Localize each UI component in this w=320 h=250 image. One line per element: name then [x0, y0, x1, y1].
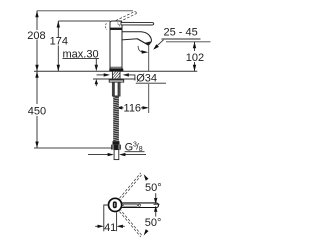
svg-text:50°: 50° [145, 182, 162, 194]
max.30 leader down [95, 59, 97, 66]
top view phantom lever +50 [120, 173, 143, 200]
connector nut [111, 145, 121, 150]
svg-text:41: 41 [104, 222, 116, 234]
base flange [109, 69, 123, 72]
ref line hose end (450 bottom) [34, 147, 114, 149]
dim O34 right arrow + elbow leader [123, 73, 135, 80]
spout outlet centerline [148, 46, 150, 113]
svg-text:116: 116 [124, 103, 142, 115]
spout outlet slant line [137, 39, 148, 45]
angle arc upper [155, 193, 157, 198]
dim 174 line [57, 21, 59, 71]
ref line lever top (174 level) [58, 20, 110, 22]
label max.30 underline [63, 58, 100, 60]
dim 174 arrows [57, 21, 60, 71]
ref line 102 top [166, 41, 211, 43]
connector tail G3/8 [114, 150, 119, 160]
dim 41 leader L [104, 205, 109, 231]
stream angle arc arrow [138, 46, 142, 52]
lever lift dashed arc [105, 23, 106, 29]
ref line top (208 level) [37, 10, 133, 12]
top view lever [121, 203, 159, 208]
svg-text:208: 208 [27, 30, 45, 42]
svg-text:25 - 45: 25 - 45 [164, 26, 198, 38]
dim O34 left arrow [97, 73, 111, 76]
lever bar [121, 22, 154, 25]
dim 450 arrows [35, 71, 38, 148]
spout [122, 32, 151, 45]
lever tip reference tick [154, 203, 160, 205]
dim 208 line [36, 11, 38, 71]
dim 102 line [194, 42, 196, 71]
svg-text:50°: 50° [145, 217, 162, 229]
svg-text:174: 174 [50, 35, 68, 47]
dim 208 arrows [35, 11, 38, 71]
cartridge dark ring [110, 28, 123, 30]
top view phantom lever -50 [120, 210, 143, 237]
top view body circle [109, 198, 122, 211]
body joint line [110, 66, 122, 68]
svg-text:102: 102 [186, 52, 204, 64]
dim 116 [118, 107, 147, 109]
spout outlet tip solid [145, 41, 151, 45]
faucet body [110, 30, 122, 69]
deck top line [34, 70, 197, 72]
angle arc lower [155, 212, 157, 217]
shank through deck [112, 71, 120, 79]
hose crimp [113, 141, 120, 144]
dim 450 line [36, 71, 38, 148]
label O34 underline [136, 82, 166, 84]
mounting washer [109, 79, 124, 82]
deck bottom line [93, 78, 136, 80]
top view lever inner slot [123, 204, 138, 206]
max.30 arrow to deck bottom [95, 79, 98, 84]
max.30 arrow to deck top [95, 65, 98, 72]
lever pivot dome [117, 24, 119, 26]
svg-text:450: 450 [28, 105, 46, 117]
dim 41 right ext line [116, 212, 118, 231]
dim 102 arrows [193, 42, 196, 71]
flex hose [113, 96, 119, 141]
leader 25-45 to spout [155, 40, 164, 48]
faucet head (cartridge) [110, 21, 122, 30]
raised lever phantom [116, 12, 137, 23]
dim G3/8 arrows [88, 154, 146, 156]
dim 41 arrows [95, 225, 125, 227]
label 25-45 underline [162, 38, 201, 40]
top view center slot [113, 201, 117, 208]
label G3/8 underline [125, 151, 145, 153]
shank [112, 82, 120, 96]
